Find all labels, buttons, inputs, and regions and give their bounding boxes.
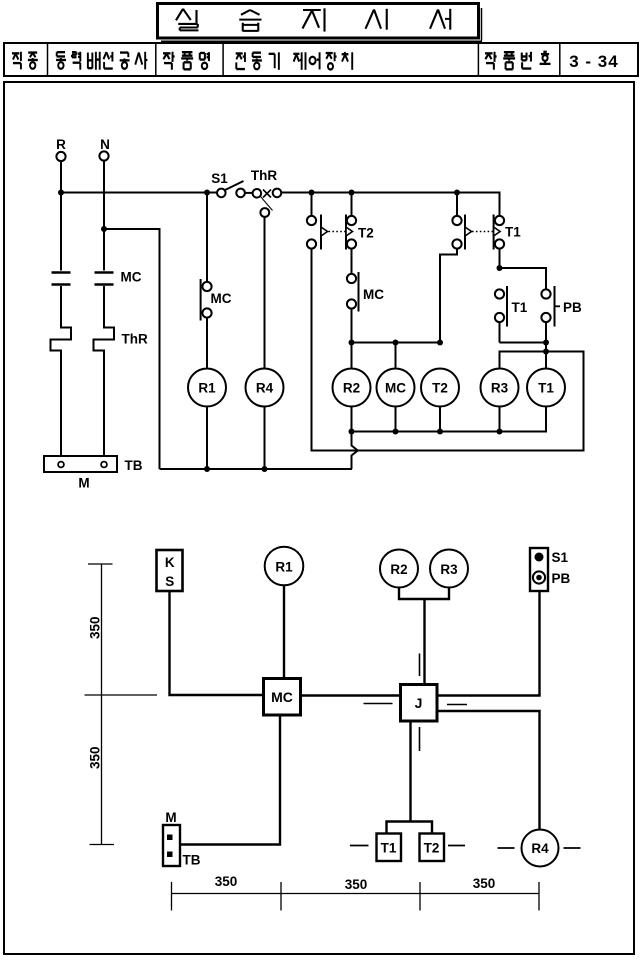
MC aux contact a (R1 branch) — [202, 282, 211, 291]
junction R4-bottom bus — [262, 466, 268, 472]
dash right of R4 — [564, 847, 581, 849]
coil top bus — [352, 342, 441, 344]
wire R1 to MC box — [283, 586, 285, 679]
wire crossover hop — [352, 432, 358, 470]
button S1 — [535, 553, 544, 562]
wire MC aux to R1 coil — [206, 318, 208, 369]
wire T1 contact down — [499, 322, 501, 342]
wire R2R3 riser to J — [423, 599, 425, 685]
coil bottom bus — [352, 407, 547, 432]
header cell 전동기 제어장치 — [236, 52, 245, 69]
junction coil bus R2 — [349, 340, 355, 346]
tick left of J — [364, 703, 393, 705]
wire MC to J — [301, 694, 401, 696]
svg-text:R3: R3 — [491, 381, 509, 396]
dash left of T1 — [350, 845, 369, 847]
svg-text:J: J — [415, 695, 423, 711]
svg-text:R2: R2 — [343, 381, 360, 396]
relay coil R2 — [333, 369, 371, 407]
svg-text:T2: T2 — [424, 841, 440, 856]
svg-text:T1: T1 — [505, 225, 521, 240]
box KS — [157, 550, 183, 591]
svg-text:ThR: ThR — [122, 332, 148, 347]
timer contact T2 b (NC) — [345, 215, 347, 250]
header cell 직종 — [12, 52, 21, 70]
terminal block TB layout — [163, 825, 180, 866]
wire S1-ThR — [245, 192, 253, 194]
lamp R3 — [430, 550, 468, 588]
svg-text:R4: R4 — [531, 841, 549, 856]
wire TB to MC box — [180, 715, 280, 845]
box T2 — [420, 834, 445, 862]
mechanical link T1 — [472, 231, 493, 233]
thermal contact ThR — [253, 189, 262, 198]
header table — [4, 43, 638, 76]
svg-text:S1: S1 — [211, 171, 228, 186]
terminal R — [56, 152, 65, 161]
wire R3 coil to bottom bus — [499, 407, 501, 432]
timer contact T1 a (NO) — [452, 216, 461, 225]
junction bus1-T2b branch — [349, 190, 355, 196]
switch S1 — [217, 189, 226, 198]
lamp R1 — [265, 547, 304, 586]
wire MC coil to bottom bus — [395, 407, 397, 432]
wire bus1 to T2 contact b — [351, 193, 353, 217]
box MC — [264, 679, 301, 716]
tick below J — [419, 727, 421, 751]
svg-text:3 - 34: 3 - 34 — [569, 52, 618, 71]
wire bus1 to MC aux contact — [206, 193, 208, 282]
terminal N — [99, 151, 108, 160]
junction bus1-T1a branch — [454, 190, 460, 196]
svg-text:T1: T1 — [538, 381, 554, 396]
box J — [401, 685, 438, 722]
pushbutton PB — [541, 289, 550, 298]
wire R drop — [60, 161, 62, 271]
wire timer tee — [387, 822, 433, 834]
wire T2 coil to bottom bus — [439, 407, 441, 432]
contactor coil MC — [377, 369, 415, 407]
junction bottom bus T2 — [437, 429, 443, 435]
lamp R2 — [380, 550, 418, 588]
svg-text:TB: TB — [183, 853, 201, 868]
timer contact T2 a (NO) — [307, 216, 316, 225]
header cell 작품번호 — [485, 52, 497, 70]
svg-text:MC: MC — [121, 270, 142, 285]
junction T1b-PB branch — [497, 265, 503, 271]
svg-text:MC: MC — [363, 287, 384, 302]
ThR heater R phase — [51, 286, 72, 456]
svg-text:T1: T1 — [381, 841, 397, 856]
box T1 — [377, 834, 402, 862]
svg-text:T1: T1 — [512, 300, 528, 315]
title text 실습지시서 — [176, 9, 199, 31]
wire J to S1PB station — [437, 591, 540, 696]
svg-text:R1: R1 — [275, 560, 293, 575]
relay contact T1 (NC) — [495, 289, 504, 298]
junction PB-351 — [543, 349, 549, 355]
junction R-bus1 — [58, 190, 64, 196]
lamp R4 — [522, 830, 559, 867]
terminal block TB — [44, 456, 117, 472]
svg-text:T2: T2 — [358, 226, 374, 241]
svg-text:N: N — [100, 137, 110, 152]
wire bottom return bus — [160, 468, 353, 470]
dimension bottom line — [172, 893, 540, 895]
wire R2 to J — [399, 588, 425, 600]
svg-text:350: 350 — [473, 876, 496, 891]
relay coil R1 — [188, 369, 226, 407]
junction bus1-R1 branch — [204, 190, 210, 196]
wire T2a down-around to right riser — [312, 249, 584, 451]
svg-text:ThR: ThR — [251, 168, 277, 183]
wire N drop — [103, 161, 105, 271]
wire R1 coil to bottom bus — [206, 407, 208, 470]
wire bus1 right segment — [281, 193, 499, 217]
MC main contact N phase — [95, 271, 114, 274]
dimension label 350 upper — [88, 616, 103, 639]
wire bus1 to T2 contact a — [311, 193, 313, 217]
timer coil T2 — [421, 369, 459, 407]
dash right of T2 — [448, 845, 465, 847]
svg-text:MC: MC — [271, 689, 293, 705]
junction N-bus2 — [101, 226, 107, 232]
tick right of J — [447, 704, 467, 706]
header cell 동력배선공사 — [56, 52, 66, 69]
svg-text:350: 350 — [88, 616, 103, 639]
svg-text:K: K — [165, 555, 175, 570]
wire T2b to MC aux b — [351, 249, 353, 274]
wire bus1 — [61, 192, 217, 194]
svg-text:350: 350 — [88, 746, 103, 769]
svg-text:M: M — [78, 476, 89, 491]
ThR heater N phase — [94, 286, 115, 456]
svg-text:R2: R2 — [390, 562, 407, 577]
junction bus1-T2a branch — [309, 190, 315, 196]
svg-text:350: 350 — [215, 874, 238, 889]
wire coil bus to MC coil — [395, 343, 397, 369]
svg-text:M: M — [165, 810, 176, 825]
relay coil R3 — [481, 369, 519, 407]
wire bus1 to T1 contact a — [456, 193, 458, 217]
wire PB bottom to T1 coil — [545, 322, 547, 368]
svg-text:S1: S1 — [552, 550, 569, 565]
wire R2 to bottom bus — [351, 407, 353, 432]
wire KS to MC box — [170, 591, 264, 695]
wire R3 to J — [425, 588, 450, 600]
svg-text:350: 350 — [345, 877, 368, 892]
junction coil bus MC — [393, 340, 399, 346]
svg-text:MC: MC — [211, 291, 232, 306]
junction bottom bus R3 — [497, 429, 503, 435]
svg-text:PB: PB — [563, 300, 582, 315]
timer contact T1 b (NC) — [493, 215, 495, 250]
wire R4 coil to bottom bus — [264, 407, 266, 470]
junction bottom bus MC — [393, 429, 399, 435]
wire MC aux b to coil bus — [351, 309, 353, 343]
title box — [158, 4, 479, 39]
svg-text:TB: TB — [125, 458, 143, 473]
mechanical link T2 — [329, 231, 346, 233]
junction coil bus T2 — [437, 340, 443, 346]
timer coil T1 — [527, 369, 565, 407]
wire ThR to R4 coil — [264, 217, 266, 369]
svg-text:R4: R4 — [256, 381, 274, 396]
svg-text:MC: MC — [385, 381, 406, 396]
MC aux contact b (self-hold) — [347, 274, 356, 283]
dimension vertical line — [101, 564, 103, 845]
header cell 작품명 — [163, 52, 175, 70]
box S1 PB station — [530, 548, 548, 591]
junction R1-bottom bus — [204, 466, 210, 472]
ThR trip terminal — [260, 208, 269, 217]
wire coil bus to R2 — [351, 343, 353, 369]
svg-text:S: S — [165, 574, 174, 589]
relay coil R4 — [246, 369, 284, 407]
MC main contact R phase — [52, 271, 71, 274]
svg-text:T2: T2 — [432, 381, 448, 396]
wire T1 contact to PB bottom — [500, 342, 547, 344]
wire to PB contact — [500, 268, 547, 289]
svg-text:R: R — [56, 137, 66, 152]
wire J down to timers — [409, 721, 411, 822]
tick above J — [419, 654, 421, 677]
wire T1b down — [499, 249, 501, 268]
svg-text:R3: R3 — [440, 562, 458, 577]
wire bus2 to riser — [104, 229, 160, 469]
junction bottom bus R2 — [349, 429, 355, 435]
dash left of R4 — [498, 847, 515, 849]
dimension label 350 lower — [88, 746, 103, 769]
button PB — [533, 571, 545, 583]
svg-text:R1: R1 — [198, 381, 216, 396]
wire J to R4 — [437, 711, 540, 830]
junction PB-342 — [543, 340, 549, 346]
wire T1a elbow to T2 coil — [440, 249, 457, 343]
svg-text:PB: PB — [552, 571, 571, 586]
